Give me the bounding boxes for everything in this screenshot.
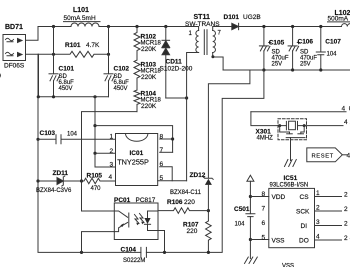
svg-text:DO: DO	[299, 238, 309, 245]
svg-text:VSS: VSS	[272, 238, 286, 245]
optocoupler PC01 labels	[114, 197, 156, 204]
wire primary ground bottom	[38, 54, 141, 252]
resistor R102	[134, 27, 162, 61]
svg-text:4: 4	[109, 174, 113, 181]
optocoupler light arrows	[135, 214, 145, 226]
cut label VSS bottom edge	[282, 264, 294, 267]
svg-text:IC51: IC51	[284, 175, 298, 182]
node dot R105 left junction	[80, 179, 83, 182]
resistor R106	[158, 199, 208, 213]
wire bias line to pins 8 and 7	[95, 126, 173, 153]
svg-text:5: 5	[262, 235, 266, 242]
dashed box crystal X301	[278, 119, 307, 140]
svg-text:6: 6	[262, 220, 266, 227]
optocoupler PC01 body	[114, 203, 158, 240]
pin number 2 IC01	[110, 148, 114, 155]
pin number 7 IC51	[262, 206, 266, 213]
svg-text:ZD11: ZD11	[53, 170, 69, 177]
wire pin 8	[160, 138, 173, 140]
svg-text:8: 8	[262, 191, 266, 198]
diode D101	[224, 14, 261, 30]
svg-text:SCK: SCK	[296, 209, 310, 216]
svg-text:5: 5	[160, 175, 164, 182]
net label 2x DO	[344, 235, 350, 242]
wire source pins drop x95	[94, 97, 96, 153]
capacitor C107	[316, 27, 341, 71]
node dot drain x186.6	[185, 96, 188, 99]
svg-text:C101: C101	[59, 66, 75, 73]
svg-text:104: 104	[235, 221, 246, 227]
svg-text:2: 2	[344, 206, 348, 213]
wire secondary top to rail	[213, 27, 232, 31]
node phase dot secondary	[211, 55, 214, 58]
svg-text:220: 220	[184, 199, 195, 206]
node dot pin2 junction	[93, 152, 96, 155]
zener diode ZD12	[170, 172, 213, 196]
wire CD11 bottom to drain line	[166, 97, 187, 99]
svg-text:4: 4	[344, 119, 348, 126]
svg-text:DI: DI	[301, 223, 308, 230]
wire pin 2 SCK IC51	[315, 210, 342, 212]
capacitor C101	[49, 66, 74, 97]
optocoupler photodetector	[144, 211, 158, 231]
node dot opto emitter bottom	[163, 251, 166, 254]
svg-text:VDD: VDD	[272, 194, 286, 201]
wire DC+ top rail (L101 to transformer)	[99, 27, 199, 31]
resistor R101	[26, 42, 109, 57]
svg-text:93LC56B-I/SN: 93LC56B-I/SN	[270, 182, 309, 188]
zener diode ZD11	[36, 170, 82, 194]
wire pin 5 drain	[158, 180, 187, 182]
svg-text:7: 7	[262, 206, 266, 213]
wire secondary 0V rail	[223, 69, 350, 71]
node dot crystal cap right	[303, 124, 306, 127]
net label 4x upper	[342, 106, 350, 113]
wire opto LED cathode return	[82, 232, 115, 253]
wire node B vertical x108.5	[108, 27, 110, 74]
power symbol VDD triangle	[247, 175, 254, 181]
pin number 5 IC51	[262, 235, 266, 242]
capacitor C501	[234, 206, 255, 259]
node dot R101 left	[52, 53, 55, 56]
bridge rectifier part number DF06S	[4, 63, 25, 70]
svg-text:VSS: VSS	[282, 264, 294, 267]
cut-off label 0 at left edge	[0, 73, 1, 80]
transformer ST11 core	[204, 30, 207, 55]
node dot 0V rail x263.9	[262, 68, 265, 71]
node dot 0V rail x292.6	[291, 68, 294, 71]
wire pin 8 VDD IC51	[250, 196, 268, 198]
wire secondary bottom pin	[213, 53, 223, 71]
net label 4x lower	[344, 119, 350, 126]
node dot top rail x165.8	[164, 25, 167, 28]
svg-text:D101: D101	[224, 14, 240, 21]
op-amp IC01 TNY255P body	[116, 134, 158, 186]
ground crystal	[285, 160, 297, 167]
svg-text:BZX84-C3V6: BZX84-C3V6	[36, 188, 72, 194]
svg-text:7: 7	[160, 147, 164, 154]
node dot VSS pin5	[249, 238, 252, 241]
svg-text:X301: X301	[256, 128, 272, 135]
svg-text:C107: C107	[325, 39, 341, 46]
inductor L101	[64, 7, 101, 27]
pin number 8 IC51	[262, 191, 266, 198]
node dot crystal cap left	[278, 124, 281, 127]
svg-text:220K: 220K	[141, 46, 157, 53]
svg-text:8: 8	[160, 134, 164, 141]
resistor R107	[183, 221, 211, 252]
svg-text:2: 2	[344, 220, 348, 227]
bridge rectifier BD71 body	[3, 35, 26, 61]
inductor L102	[328, 10, 350, 27]
node dot bottom rail x38	[37, 95, 40, 98]
wire ZD12 to R106 node	[207, 185, 209, 221]
node dot R107 bottom	[207, 251, 210, 254]
svg-text:C104: C104	[121, 246, 137, 253]
svg-text:S102D-200: S102D-200	[160, 66, 193, 73]
wire primary bottom rail	[38, 96, 109, 98]
ground IC51	[245, 257, 258, 264]
wire pin 3 DI IC51	[315, 225, 342, 227]
wire pin 1 CS IC51	[315, 196, 342, 198]
svg-text:TNY255P: TNY255P	[117, 158, 149, 167]
svg-text:C105: C105	[269, 40, 285, 47]
svg-text:470: 470	[91, 186, 102, 192]
capacitor crystal load left	[280, 126, 293, 134]
svg-text:4: 4	[316, 234, 320, 241]
svg-text:2: 2	[344, 191, 348, 198]
net label 4x reset	[347, 152, 350, 159]
wire RESET to edge	[342, 154, 347, 156]
svg-text:450V: 450V	[114, 86, 128, 92]
wire clock line lower right segment	[298, 125, 344, 127]
net label 2x CS	[344, 191, 350, 198]
svg-text:2: 2	[344, 235, 348, 242]
node dot top rail x137	[135, 25, 138, 28]
svg-text:BD71: BD71	[5, 24, 23, 31]
svg-text:R105: R105	[87, 173, 103, 180]
svg-text:ZD12: ZD12	[190, 172, 206, 179]
svg-text:25V: 25V	[300, 62, 311, 68]
svg-text:UG2B: UG2B	[243, 14, 261, 21]
svg-text:C103: C103	[40, 130, 56, 137]
transformer ST11 labels	[185, 14, 220, 28]
node dot rail x292.6	[291, 25, 294, 28]
diode CD11	[160, 27, 193, 99]
svg-text:4MHZ: 4MHZ	[257, 136, 274, 142]
capacitor C104	[121, 246, 147, 263]
svg-text:1: 1	[316, 190, 320, 197]
svg-text:DF06S: DF06S	[4, 63, 25, 70]
optocoupler LED	[114, 211, 129, 232]
node dot VDD pin8	[249, 195, 252, 198]
wire opto emitter to ground wire	[158, 231, 165, 253]
svg-text:C102: C102	[114, 66, 130, 73]
pin number 2 IC51	[316, 205, 320, 212]
resistor R105	[82, 173, 116, 193]
wire pin 2	[95, 152, 116, 154]
svg-text:S0222M: S0222M	[123, 258, 145, 264]
pin number 6 IC01	[160, 161, 164, 168]
pin number 3 IC51	[316, 219, 320, 226]
svg-text:104: 104	[327, 52, 338, 58]
capacitor crystal load right	[298, 126, 304, 134]
node dot rail x320.8	[319, 25, 322, 28]
svg-text:2: 2	[110, 148, 114, 155]
node dot opto LED cathode bottom	[80, 251, 83, 254]
node dot bottom rail x95	[93, 95, 96, 98]
svg-text:25V: 25V	[272, 62, 283, 68]
node dot rail x263.9	[262, 25, 265, 28]
svg-text:1: 1	[110, 134, 114, 141]
wire bridge positive output to top rail	[26, 27, 39, 41]
node dot R106 right	[207, 209, 210, 212]
pin number 1 IC01	[110, 134, 114, 141]
svg-text:50mA 5mH: 50mA 5mH	[64, 15, 96, 22]
capacitor C106	[288, 27, 317, 71]
svg-text:4: 4	[347, 152, 350, 159]
svg-text:R104: R104	[141, 91, 157, 98]
crystal X301	[256, 121, 298, 141]
svg-text:220K: 220K	[141, 74, 157, 81]
svg-text:R102: R102	[141, 34, 157, 41]
wire bridge negative drop to bottom rail	[38, 54, 40, 97]
IC U51 93LC56B labels	[270, 175, 309, 188]
wire VDD vertical to C501	[249, 181, 251, 213]
svg-text:C501: C501	[234, 206, 250, 213]
node dot pin8 junction	[171, 137, 174, 140]
wire pin 4 DO IC51	[315, 239, 342, 241]
wire pin 5 VSS IC51	[250, 239, 268, 241]
svg-text:CS: CS	[300, 194, 310, 201]
wire clock line upper to right edge	[251, 111, 346, 113]
svg-text:C106: C106	[298, 39, 314, 46]
pin number 1 IC51	[316, 190, 320, 197]
wire node A vertical x53.5	[53, 27, 55, 74]
svg-text:220: 220	[187, 228, 198, 235]
svg-text:IC01: IC01	[130, 150, 144, 157]
pin number 8 IC01	[160, 134, 164, 141]
svg-text:220K: 220K	[141, 103, 157, 110]
svg-text:4: 4	[342, 106, 346, 113]
svg-text:2: 2	[316, 205, 320, 212]
pin number 4 IC51	[316, 234, 320, 241]
svg-text:L101: L101	[73, 7, 89, 14]
capacitor C105	[259, 27, 288, 71]
node dot top rail x108.5	[107, 25, 110, 28]
wire ground return staircase	[146, 70, 264, 252]
bridge rectifier BD71 label	[5, 24, 23, 31]
pin number 6 IC51	[262, 220, 266, 227]
svg-text:R103: R103	[141, 62, 157, 69]
node dot bias tap x95	[93, 124, 96, 127]
capacitor C103	[38, 130, 116, 144]
wire pin 6 to drain row	[160, 167, 173, 181]
IC U51 93LC56B body	[269, 188, 315, 247]
resistor R103	[134, 60, 162, 90]
svg-text:R106: R106	[167, 199, 183, 206]
flag RESET	[307, 148, 343, 162]
svg-text:450V: 450V	[59, 86, 73, 92]
svg-text:104: 104	[67, 132, 78, 138]
node dot top rail x53.5	[52, 25, 55, 28]
svg-text:RESET: RESET	[312, 154, 334, 160]
resistor R104	[134, 90, 162, 112]
node dot C103 tap	[36, 138, 39, 141]
pin number 3 IC01	[110, 162, 114, 169]
wire pin 3	[95, 153, 116, 167]
node dot ZD11 tap	[36, 179, 39, 182]
wire feedback tap staircase to ZD12	[208, 70, 250, 178]
transformer ST11 secondary winding	[213, 31, 222, 53]
net label 2x SCK	[344, 206, 350, 213]
transformer ST11 primary winding	[189, 31, 199, 53]
svg-text:3: 3	[316, 219, 320, 226]
svg-text:4.7K: 4.7K	[86, 42, 100, 49]
wire secondary DC rail after D101	[239, 26, 342, 28]
svg-text:R101: R101	[65, 42, 81, 49]
node dot R101 right	[107, 53, 110, 56]
capacitor C102	[104, 66, 129, 97]
wire clock line lower left segment	[251, 112, 287, 126]
pin number 5 IC01	[160, 175, 164, 182]
net label 2x DI	[344, 220, 350, 227]
node dot bottom rail x53.5	[52, 95, 55, 98]
pin number 7 IC01	[160, 147, 164, 154]
svg-text:3: 3	[110, 162, 114, 169]
pin number 4 IC01	[109, 174, 113, 181]
wire pin 7	[160, 151, 173, 153]
wire primary bottom to drain vertical	[187, 53, 199, 181]
svg-text:0: 0	[0, 73, 1, 80]
svg-text:CD11: CD11	[166, 59, 183, 66]
wire R104 bottom to opto LED anode	[82, 112, 138, 211]
wire crystal caps common plate to ground	[286, 138, 305, 161]
svg-text:6: 6	[160, 161, 164, 168]
node dot 0V rail x320.8	[319, 68, 322, 71]
svg-text:BZX84-C11: BZX84-C11	[170, 190, 202, 196]
wire DC+ top rail (left section to L101)	[38, 26, 71, 28]
